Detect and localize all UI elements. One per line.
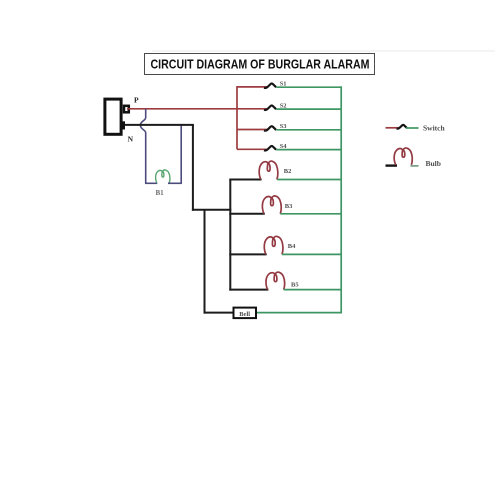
wire green B2 [277, 179, 342, 181]
switch S3 [264, 126, 276, 131]
wire red S1 [237, 86, 267, 88]
wire bulb bus vertical [229, 180, 231, 291]
wire red vertical bus [236, 86, 238, 149]
wire green right bus [340, 86, 342, 313]
wire green B3 [280, 213, 342, 215]
switch S2 [264, 105, 276, 110]
wire black B2 [229, 179, 261, 181]
wire green S3 [276, 129, 342, 131]
wire connector horizontal [192, 209, 231, 211]
svg-text:CIRCUIT DIAGRAM OF BURGLAR ALA: CIRCUIT DIAGRAM OF BURGLAR ALARAM [151, 57, 370, 72]
wire main black vertical [192, 125, 194, 211]
bell [234, 308, 257, 319]
wire navy right vertical [180, 125, 182, 183]
bulb B4 [264, 236, 283, 254]
wire green bell [257, 312, 342, 314]
wire green B4 [282, 253, 342, 255]
legend bulb symbol [386, 148, 419, 166]
svg-text:B5: B5 [291, 282, 299, 289]
wire green S4 [276, 149, 342, 151]
wire red S3 [237, 129, 267, 131]
wire red S4 [237, 148, 267, 150]
battery PS [105, 99, 121, 134]
wire green B5 [284, 289, 342, 291]
terminal N [122, 121, 125, 129]
bulb B3 [262, 196, 281, 214]
wire black B3 [229, 213, 264, 215]
wire navy bottom right [168, 182, 182, 184]
bulb B2 [259, 161, 278, 179]
svg-text:Switch: Switch [423, 124, 445, 133]
svg-text:N: N [128, 135, 134, 144]
svg-text:B3: B3 [285, 203, 293, 210]
wire bell drop vertical [204, 210, 206, 314]
faint scan line [152, 50, 495, 52]
svg-text:P: P [134, 95, 139, 104]
svg-text:B1: B1 [156, 189, 165, 197]
bulb B5 [266, 272, 285, 290]
wire black B5 [229, 289, 268, 291]
switch S1 [264, 83, 276, 88]
wire green S2 [276, 108, 342, 110]
wire navy left with hop [140, 109, 145, 183]
svg-text:Bell: Bell [239, 311, 250, 318]
wire P red horizontal [127, 108, 267, 110]
terminal P [124, 106, 129, 113]
wire green S1 [276, 86, 342, 88]
legend switch symbol [386, 125, 419, 129]
svg-text:Bulb: Bulb [426, 159, 441, 168]
bulb B1 [156, 170, 170, 183]
wire N black horizontal [125, 124, 194, 126]
svg-text:B4: B4 [288, 243, 296, 250]
svg-text:S1: S1 [280, 80, 287, 87]
switch S4 [264, 146, 276, 151]
wire bell black horizontal [204, 312, 233, 314]
svg-text:B2: B2 [284, 168, 292, 175]
wire black B4 [229, 253, 266, 255]
wire navy bottom left [145, 182, 157, 184]
title box [145, 54, 375, 75]
